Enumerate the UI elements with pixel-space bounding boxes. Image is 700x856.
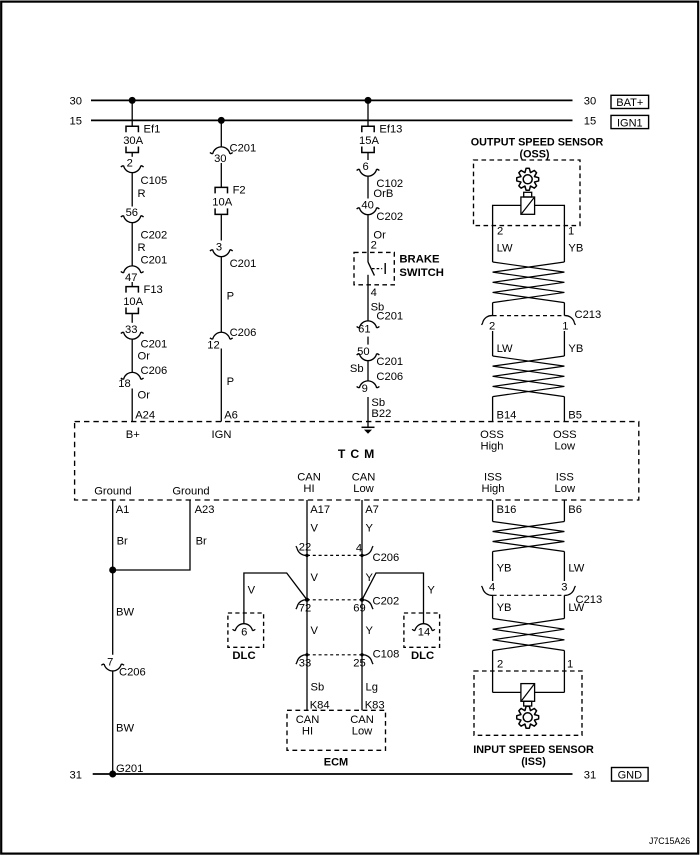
svg-text:HI: HI <box>302 725 313 737</box>
svg-text:33: 33 <box>125 324 137 336</box>
TCM pin CAN HI <box>297 472 321 496</box>
svg-text:2: 2 <box>489 321 495 333</box>
label 31 right <box>584 770 596 782</box>
svg-text:15A: 15A <box>359 135 379 147</box>
pin label K84 <box>310 700 330 712</box>
svg-text:3: 3 <box>216 242 222 254</box>
wire to pin 2 <box>492 651 494 693</box>
svg-text:C201: C201 <box>376 356 403 368</box>
svg-text:2: 2 <box>127 158 133 170</box>
svg-text:C202: C202 <box>373 595 400 607</box>
wire <box>131 282 133 287</box>
bus line 15 <box>91 119 573 121</box>
svg-text:Low: Low <box>555 483 576 495</box>
wire V <box>307 500 319 555</box>
svg-text:HI: HI <box>303 483 314 495</box>
svg-text:C202: C202 <box>376 211 403 223</box>
svg-text:BAT+: BAT+ <box>616 97 643 109</box>
DLC stub wire Y (pin 14) <box>362 573 435 624</box>
TCM pin ISS Low <box>555 472 576 496</box>
svg-text:Low: Low <box>352 725 373 737</box>
svg-text:DLC: DLC <box>232 650 255 662</box>
svg-text:High: High <box>481 483 504 495</box>
fuse Ef13 15A <box>359 123 402 152</box>
wire Sb <box>368 397 385 422</box>
wire Or <box>132 389 150 422</box>
svg-text:OrB: OrB <box>373 188 393 200</box>
OSS coil loop <box>493 205 565 262</box>
connector C108 pin 33 <box>296 653 311 670</box>
TCM module box <box>75 422 639 500</box>
svg-text:30: 30 <box>70 96 82 108</box>
brake switch <box>368 252 385 284</box>
svg-text:Y: Y <box>366 522 374 534</box>
svg-text:A24: A24 <box>135 409 155 421</box>
ECM pin CAN HI <box>296 714 320 738</box>
fuse F2 10A <box>212 185 245 215</box>
svg-text:LW: LW <box>568 563 584 575</box>
svg-text:CAN: CAN <box>297 472 321 484</box>
svg-text:Sb: Sb <box>311 682 325 694</box>
svg-text:1: 1 <box>567 659 573 671</box>
svg-text:4: 4 <box>489 582 495 594</box>
svg-text:C206: C206 <box>141 365 168 377</box>
wire YB <box>564 331 583 356</box>
svg-text:C202: C202 <box>141 229 168 241</box>
OSS gear <box>517 168 539 190</box>
bus line 31 <box>93 773 573 775</box>
C213 pin 4 <box>489 582 495 594</box>
connector C202 interface <box>307 595 399 607</box>
svg-text:SWITCH: SWITCH <box>399 267 444 279</box>
connector C206 pin 18 <box>118 365 167 390</box>
svg-text:C201: C201 <box>230 258 257 270</box>
pin label K83 <box>365 700 385 712</box>
svg-text:Or: Or <box>138 350 151 362</box>
svg-text:61: 61 <box>358 324 370 336</box>
wire from B6 <box>563 500 565 522</box>
TCM pin B+ <box>126 429 140 441</box>
svg-text:A1: A1 <box>116 504 130 516</box>
pin label A7 <box>365 504 379 516</box>
wire LW <box>564 552 584 582</box>
wire <box>131 100 133 126</box>
svg-text:INPUT SPEED SENSOR: INPUT SPEED SENSOR <box>473 744 594 756</box>
pin label B16 <box>497 504 517 516</box>
C213 pin 2 <box>489 321 495 333</box>
svg-text:4: 4 <box>371 287 377 299</box>
wire Y <box>362 500 374 555</box>
svg-text:R: R <box>138 242 146 254</box>
svg-text:1: 1 <box>568 226 574 238</box>
svg-text:J7C15A26: J7C15A26 <box>649 836 690 846</box>
wire YB <box>568 242 583 254</box>
wire R <box>132 223 145 267</box>
svg-text:A17: A17 <box>310 504 330 516</box>
svg-text:30: 30 <box>584 96 596 108</box>
svg-text:YB: YB <box>497 602 512 614</box>
wire <box>493 303 565 316</box>
connector C105 pin 2 <box>121 158 167 187</box>
svg-text:Lg: Lg <box>366 682 378 694</box>
svg-text:Y: Y <box>366 625 374 637</box>
svg-text:Br: Br <box>196 536 207 548</box>
wire V <box>307 600 319 655</box>
svg-text:Ef1: Ef1 <box>144 123 161 135</box>
svg-text:BRAKE: BRAKE <box>399 254 440 266</box>
pin label A24 <box>135 409 155 421</box>
svg-text:Y: Y <box>427 585 435 597</box>
svg-text:Or: Or <box>138 390 151 402</box>
svg-text:A6: A6 <box>224 409 238 421</box>
wire <box>131 314 133 323</box>
connector C213 (ISS) <box>482 586 603 606</box>
svg-text:DLC: DLC <box>411 650 434 662</box>
label DLC right <box>411 650 434 662</box>
label 15 left <box>70 116 82 128</box>
svg-text:F2: F2 <box>233 185 246 197</box>
svg-text:C201: C201 <box>230 142 257 154</box>
wire to B5 <box>563 397 565 422</box>
wire <box>220 214 222 240</box>
label TCM <box>338 447 375 461</box>
pin label A1 <box>116 504 130 516</box>
svg-text:B22: B22 <box>371 408 391 420</box>
node junction Br/BW <box>109 567 116 574</box>
svg-text:Ground: Ground <box>172 485 209 497</box>
svg-text:Ground: Ground <box>94 485 131 497</box>
svg-text:Y: Y <box>366 572 374 584</box>
svg-text:YB: YB <box>568 242 583 254</box>
svg-text:BW: BW <box>116 723 134 735</box>
svg-text:Low: Low <box>555 441 576 453</box>
svg-text:P: P <box>227 291 234 303</box>
connector C206 pin 9 <box>357 371 404 395</box>
label ECM <box>324 757 348 769</box>
svg-text:OSS: OSS <box>480 429 504 441</box>
ISS sensor box <box>474 671 582 735</box>
pin label A23 <box>195 504 215 516</box>
svg-text:14: 14 <box>418 626 430 638</box>
svg-text:C201: C201 <box>141 255 168 267</box>
connector C202 pin 72 <box>296 598 311 615</box>
pin label A17 <box>310 504 330 516</box>
TCM pin ISS High <box>481 472 504 496</box>
TCM pin IGN <box>212 429 232 441</box>
wire <box>367 153 369 161</box>
TCM pin Ground A1 <box>94 485 131 497</box>
wire <box>367 100 369 126</box>
svg-text:2: 2 <box>497 659 503 671</box>
svg-text:C206: C206 <box>230 327 257 339</box>
svg-text:C201: C201 <box>141 338 168 350</box>
svg-text:ISS: ISS <box>484 472 502 484</box>
svg-text:CAN: CAN <box>296 714 320 726</box>
svg-text:72: 72 <box>299 603 311 615</box>
wire LW <box>564 595 584 618</box>
ISS pin 1 <box>567 659 573 671</box>
svg-text:ECM: ECM <box>324 757 348 769</box>
svg-text:30: 30 <box>214 153 226 165</box>
svg-text:C206: C206 <box>119 667 146 679</box>
svg-text:V: V <box>311 625 319 637</box>
OSS sensor pickup <box>521 192 535 214</box>
ECM module box <box>287 710 386 750</box>
svg-text:P: P <box>227 376 234 388</box>
C213 pin 1 <box>562 321 568 333</box>
TCM pin OSS High <box>480 429 504 453</box>
wire from B16 <box>492 500 494 522</box>
svg-text:GND: GND <box>618 770 643 782</box>
svg-text:YB: YB <box>568 343 583 355</box>
label BRAKE SWITCH <box>399 254 444 279</box>
svg-text:CAN: CAN <box>352 472 376 484</box>
label 31 left <box>70 770 82 782</box>
wire to B14 <box>492 397 494 422</box>
wire P <box>221 349 234 422</box>
wire (dashed interface) <box>367 337 369 345</box>
wire Br (A23) <box>113 500 207 570</box>
svg-text:15: 15 <box>70 116 82 128</box>
connector C206 pin 4 <box>356 543 373 557</box>
svg-text:OUTPUT SPEED SENSOR: OUTPUT SPEED SENSOR <box>471 136 604 148</box>
GND box <box>612 768 649 782</box>
svg-text:Sb: Sb <box>350 363 364 375</box>
svg-text:C108: C108 <box>373 648 400 660</box>
svg-text:OSS: OSS <box>553 429 577 441</box>
svg-text:4: 4 <box>356 543 362 555</box>
svg-text:LW: LW <box>497 242 513 254</box>
wire LW <box>493 331 513 356</box>
svg-text:B+: B+ <box>126 429 140 441</box>
svg-text:YB: YB <box>497 563 512 575</box>
svg-text:CAN: CAN <box>350 714 374 726</box>
connector C108 pin 25 <box>353 653 373 670</box>
wire YB <box>493 552 512 582</box>
svg-text:50: 50 <box>357 346 369 358</box>
wire Sb <box>307 655 324 711</box>
svg-text:R: R <box>138 188 146 200</box>
wire to pin 1 <box>563 651 565 693</box>
svg-text:B16: B16 <box>497 504 517 516</box>
svg-text:C213: C213 <box>575 309 602 321</box>
svg-text:F13: F13 <box>144 284 163 296</box>
pin label B6 <box>568 504 582 516</box>
TCM pin CAN Low <box>352 472 376 496</box>
TCM pin OSS Low <box>553 429 577 453</box>
svg-text:69: 69 <box>353 603 365 615</box>
svg-text:C206: C206 <box>376 371 403 383</box>
svg-text:(OSS): (OSS) <box>520 149 550 161</box>
connector C201 pin 61 <box>357 311 404 336</box>
svg-text:A7: A7 <box>365 504 379 516</box>
pin label B22 <box>371 408 391 420</box>
connector C206 interface <box>307 552 399 564</box>
node junction on line 30 (Ef13 feed) <box>365 97 372 104</box>
svg-text:Low: Low <box>353 483 374 495</box>
ISS sensor pickup <box>521 684 535 706</box>
wire Sb <box>350 361 368 382</box>
ground G201 <box>116 763 143 775</box>
connector C201 pin 30 <box>210 142 256 165</box>
OSS sensor box <box>474 160 581 226</box>
DLC connector box (pin 14) <box>404 613 440 647</box>
svg-text:9: 9 <box>362 383 368 395</box>
connector C201 pin 33 <box>121 324 167 350</box>
svg-text:C201: C201 <box>376 311 403 323</box>
svg-text:40: 40 <box>361 200 373 212</box>
wire <box>220 120 222 147</box>
svg-text:3: 3 <box>561 582 567 594</box>
label DLC left <box>232 650 255 662</box>
connector C206 pin 12 <box>207 327 256 352</box>
wire <box>220 163 222 187</box>
svg-text:10A: 10A <box>212 197 232 209</box>
svg-text:(ISS): (ISS) <box>521 756 546 768</box>
bus line 30 <box>91 99 573 101</box>
svg-text:IGN1: IGN1 <box>617 117 643 129</box>
TCM pin Ground A23 <box>172 485 209 497</box>
wire Sb <box>368 285 384 321</box>
connector C201 pin 3 <box>210 242 256 270</box>
ground symbol inside TCM (B22) <box>362 422 375 434</box>
wire Or <box>132 339 150 373</box>
DLC pin 6 <box>233 624 256 639</box>
ECM pin CAN Low <box>350 714 374 738</box>
wire P <box>221 257 234 333</box>
node junction G201 on line 31 <box>109 771 116 778</box>
svg-text:LW: LW <box>497 343 513 355</box>
svg-text:A23: A23 <box>195 504 215 516</box>
connector C108 interface <box>307 648 399 660</box>
svg-text:ISS: ISS <box>556 472 574 484</box>
DLC stub wire V (pin 6) <box>244 573 307 624</box>
svg-text:56: 56 <box>126 207 138 219</box>
wire Lg <box>362 655 378 711</box>
fuse F13 10A <box>123 284 163 314</box>
C213 pin 3 <box>561 582 567 594</box>
ISS pin 2 <box>497 659 503 671</box>
wire Y <box>362 600 374 655</box>
node junction on line 30 (Ef1 feed) <box>129 97 136 104</box>
svg-text:18: 18 <box>118 378 130 390</box>
connector C202 pin 40 <box>357 200 404 223</box>
twisted pair OSS lower <box>493 356 565 397</box>
connector C202 pin 69 <box>353 598 373 615</box>
svg-text:LW: LW <box>568 602 584 614</box>
pin label B14 <box>497 409 517 421</box>
brake switch box <box>354 252 394 284</box>
twisted pair ISS lower <box>493 619 565 651</box>
svg-text:10A: 10A <box>123 296 143 308</box>
svg-text:C105: C105 <box>141 175 168 187</box>
svg-text:15: 15 <box>584 116 596 128</box>
label 30 left <box>70 96 82 108</box>
svg-text:30A: 30A <box>123 135 143 147</box>
OSS pin 2 <box>497 226 503 238</box>
wire R <box>132 173 145 207</box>
wire <box>131 153 133 157</box>
wire BW <box>113 671 135 774</box>
BAT+ box <box>611 95 649 109</box>
label OUTPUT SPEED SENSOR <box>471 136 604 160</box>
pin label B5 <box>568 409 582 421</box>
wire V <box>307 555 319 599</box>
svg-text:31: 31 <box>584 770 596 782</box>
svg-text:7: 7 <box>107 657 113 669</box>
svg-text:B14: B14 <box>497 409 517 421</box>
connector C206 pin 22 <box>296 542 311 557</box>
fuse Ef1 30A <box>123 123 160 152</box>
svg-text:47: 47 <box>125 272 137 284</box>
svg-text:Br: Br <box>117 536 128 548</box>
svg-text:6: 6 <box>362 161 368 173</box>
svg-text:Ef13: Ef13 <box>379 123 402 135</box>
wire Or <box>368 215 386 253</box>
connector C102 pin 6 <box>357 161 404 190</box>
ISS coil loop <box>493 691 565 693</box>
wire LW <box>497 242 513 254</box>
node junction on line 15 (F2 feed) <box>218 117 225 124</box>
drawing number J7C15A26 <box>649 836 690 846</box>
svg-text:V: V <box>311 572 319 584</box>
svg-text:High: High <box>480 441 503 453</box>
IGN1 box <box>611 115 649 129</box>
svg-text:T C M: T C M <box>338 447 375 461</box>
svg-text:31: 31 <box>70 770 82 782</box>
connector C201 pin 50 <box>357 346 404 368</box>
twisted pair OSS upper <box>493 262 565 303</box>
wire OrB <box>368 176 393 200</box>
svg-text:1: 1 <box>562 321 568 333</box>
connector C206 pin 7 <box>101 657 145 679</box>
svg-text:B6: B6 <box>568 504 582 516</box>
label 30 right <box>584 96 596 108</box>
connector C213 (OSS) <box>482 309 602 325</box>
svg-text:6: 6 <box>241 626 247 638</box>
svg-text:33: 33 <box>299 658 311 670</box>
svg-text:25: 25 <box>353 658 365 670</box>
wire Y <box>362 555 374 599</box>
label 15 right <box>584 116 596 128</box>
svg-text:B5: B5 <box>568 409 582 421</box>
svg-text:V: V <box>248 585 256 597</box>
wire YB <box>493 595 512 618</box>
svg-text:V: V <box>311 522 319 534</box>
svg-text:BW: BW <box>116 607 134 619</box>
DLC pin 14 <box>412 624 435 639</box>
connector C202 pin 56 <box>121 207 167 241</box>
connector C201 pin 47 <box>121 255 167 284</box>
wire Br (A1) <box>113 500 128 655</box>
ISS gear <box>517 706 539 728</box>
svg-text:12: 12 <box>207 340 219 352</box>
svg-text:22: 22 <box>299 542 311 554</box>
svg-text:2: 2 <box>371 240 377 252</box>
twisted pair ISS upper <box>493 522 565 552</box>
label INPUT SPEED SENSOR <box>473 744 594 768</box>
pin label A6 <box>224 409 238 421</box>
svg-text:C206: C206 <box>373 552 400 564</box>
DLC connector box (pin 6) <box>228 613 264 647</box>
OSS pin 1 <box>568 226 574 238</box>
svg-text:IGN: IGN <box>212 429 232 441</box>
wire BW <box>116 607 134 619</box>
svg-text:2: 2 <box>497 226 503 238</box>
